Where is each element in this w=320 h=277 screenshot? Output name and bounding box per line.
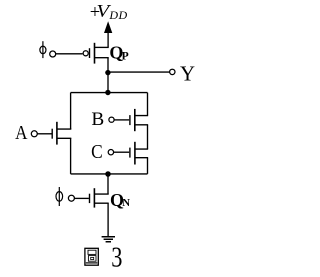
svg-text:N: N xyxy=(122,197,130,209)
svg-text:B: B xyxy=(91,109,104,130)
svg-text:A: A xyxy=(15,122,28,145)
svg-text:P: P xyxy=(122,48,129,62)
svg-text:Y: Y xyxy=(180,63,195,86)
svg-text:3: 3 xyxy=(111,241,122,273)
svg-text:C: C xyxy=(91,141,103,163)
svg-text:DD: DD xyxy=(108,8,127,22)
